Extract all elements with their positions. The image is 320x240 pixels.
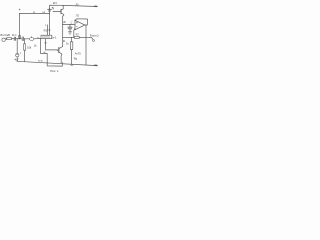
- pot left lead down: [41, 39, 48, 54]
- bottom rail: [17, 61, 97, 65]
- svg-text:Rg: Rg: [74, 57, 78, 61]
- transistor Q1 collector wire: [62, 5, 64, 9]
- wire emitter vertical long: [62, 17, 64, 47]
- ground under C2: [68, 32, 72, 34]
- svg-text:w: w: [44, 51, 46, 54]
- transistor Q1 emitter lead with hook: [61, 13, 64, 17]
- wire to ellipse: [24, 38, 30, 40]
- wire ellipse to pot: [34, 37, 41, 39]
- wire drop x17: [16, 39, 18, 54]
- resistor R1 to rail: [24, 50, 26, 62]
- capacitor C2 lead: [69, 25, 71, 28]
- battery B1 vertical wire: [49, 8, 51, 35]
- svg-text:R.C: R.C: [12, 33, 17, 37]
- capacitor C2 plates: [68, 27, 72, 29]
- svg-text:C: C: [71, 22, 73, 25]
- op-amp output wire: [85, 25, 86, 38]
- resistor R1 lead: [24, 39, 26, 44]
- svg-text:2N: 2N: [53, 1, 57, 5]
- node dot at C2: [69, 24, 70, 25]
- wire to out terminal: [86, 37, 93, 39]
- wire X1 to rail: [16, 57, 18, 61]
- wire to cap C1: [12, 38, 15, 40]
- resistor R1 box: [24, 44, 26, 50]
- capacitor C2 lower lead: [69, 29, 71, 32]
- resistor R2 feedback box: [74, 36, 79, 38]
- node junction output: [85, 37, 86, 38]
- op-amp plus mark: [76, 22, 77, 23]
- top rail right: [62, 5, 97, 6]
- node dot left: [17, 38, 18, 39]
- node dot after Rs: [12, 37, 15, 40]
- wire to op-amp input: [63, 24, 75, 26]
- wire source to resistor: [5, 38, 7, 40]
- svg-text:в..w: в..w: [38, 60, 43, 63]
- svg-text:10k: 10k: [27, 45, 32, 49]
- wire C1 to node: [16, 38, 22, 40]
- node junction Rg: [71, 37, 72, 38]
- node dot below box: [19, 38, 20, 39]
- node + above corner: [19, 9, 20, 10]
- cap C3 plates: [22, 37, 23, 41]
- svg-text:Av75: Av75: [75, 51, 81, 55]
- node dot branch: [62, 37, 63, 38]
- transistor Q1 base bar: [60, 10, 62, 14]
- node dot at battery wire: [49, 13, 50, 14]
- transistor Q2 collector lead: [59, 47, 63, 49]
- wire left rail vertical: [19, 13, 21, 38]
- transistor Q1 collector lead: [61, 9, 63, 10]
- svg-text:w: w: [33, 11, 35, 14]
- transistor Q2 base bar: [58, 48, 60, 53]
- ellipse M1: [30, 38, 34, 41]
- wire x47 to rail and sub-loop below rail: [47, 54, 62, 67]
- node dot before pot: [38, 37, 39, 38]
- svg-text:Rout.Ω: Rout.Ω: [90, 34, 99, 38]
- pot wiper wire: [47, 25, 49, 35]
- Q2 base arrow blob: [57, 49, 59, 51]
- bottom rail end blob: [95, 64, 97, 66]
- wire pot right lead / Q2 base: [46, 39, 58, 50]
- resistor Rg lead top: [71, 38, 73, 42]
- node junction at op-amp branch: [62, 24, 63, 25]
- op-amp U1 triangle: [75, 20, 85, 30]
- input source V1 circle: [2, 38, 5, 41]
- wire R2 to output: [79, 36, 86, 38]
- svg-text:4u7: 4u7: [14, 57, 19, 61]
- ellipse top tick: [31, 36, 33, 37]
- node dot rail x47: [47, 62, 48, 63]
- small box on left rail: [19, 36, 21, 39]
- wire battery top to rail corner: [50, 5, 64, 8]
- svg-text:In-1: In-1: [52, 36, 57, 40]
- component X1 at x17: [16, 54, 19, 57]
- node dot mid: [24, 38, 25, 39]
- node junction Rg rail: [71, 63, 72, 64]
- potentiometer P1 box: [41, 35, 52, 39]
- label + of battery: [52, 7, 53, 8]
- potentiometer hatches: [43, 35, 49, 39]
- capacitor C1 plates: [14, 37, 15, 40]
- battery plates: [48, 9, 52, 11]
- wire feedback node to minus input: [74, 28, 75, 37]
- wire output down to rail: [85, 37, 87, 65]
- ground tick below rail: [70, 64, 73, 65]
- out terminal circle: [93, 40, 95, 42]
- svg-text:мВ: мВ: [6, 33, 10, 37]
- svg-text:Рис. 1: Рис. 1: [50, 69, 59, 73]
- resistor Rg box: [70, 42, 72, 50]
- transistor Q1 base wire: [53, 11, 61, 13]
- wire y38 horizontal: [63, 36, 74, 38]
- tick above top rail: [75, 3, 78, 5]
- transistor Q2 emitter hook: [59, 52, 62, 63]
- top rail end blob: [95, 5, 97, 7]
- wire top-left horizontal: [20, 12, 50, 14]
- feedback loop over op-amp: [75, 19, 88, 25]
- resistor Rs box: [7, 38, 12, 40]
- resistor Rg lead bottom: [71, 50, 73, 64]
- op-amp minus mark: [76, 25, 77, 27]
